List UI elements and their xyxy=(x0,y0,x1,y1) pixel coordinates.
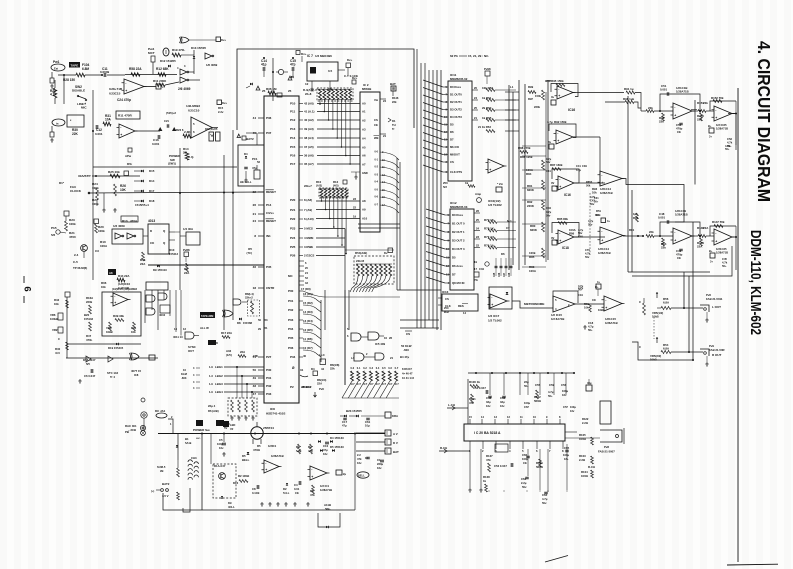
svg-text:Dv+: Dv+ xyxy=(352,76,358,80)
svg-text:1/6 4069: 1/6 4069 xyxy=(206,63,218,67)
svg-text:22A: 22A xyxy=(184,271,190,275)
svg-text:R97: R97 xyxy=(528,97,533,101)
svg-text:40μ: 40μ xyxy=(587,381,592,385)
svg-text:FAB 21-50R: FAB 21-50R xyxy=(709,348,725,352)
svg-text:A3: A3 xyxy=(362,127,366,131)
svg-text:D1*: D1* xyxy=(59,181,65,185)
svg-text:P14: P14 xyxy=(266,203,272,207)
svg-text:4.7μ: 4.7μ xyxy=(588,325,594,329)
svg-text:!: ! xyxy=(258,86,259,90)
svg-text:10: 10 xyxy=(444,115,447,119)
svg-text:U21C10: U21C10 xyxy=(188,109,200,113)
svg-text:IN1: IN1 xyxy=(266,234,271,238)
svg-text:P24: P24 xyxy=(290,236,296,240)
svg-text:Dv+: Dv+ xyxy=(301,52,307,56)
svg-text:4 MWE: 4 MWE xyxy=(304,236,314,240)
svg-text:P03: P03 xyxy=(288,318,294,322)
svg-text:10: 10 xyxy=(183,368,186,372)
svg-text:D12 151955: D12 151955 xyxy=(160,59,176,63)
svg-text:2.2Ω: 2.2Ω xyxy=(582,421,589,425)
svg-text:R146: R146 xyxy=(392,96,399,100)
svg-text:1.9: 1.9 xyxy=(209,390,213,394)
svg-text:0.5: 0.5 xyxy=(328,69,333,73)
svg-text:48: 48 xyxy=(253,384,257,388)
svg-text:D5: D5 xyxy=(452,256,456,260)
svg-text:#B: #B xyxy=(160,469,163,473)
svg-text:A8: A8 xyxy=(109,271,113,275)
svg-text:20: 20 xyxy=(474,86,477,90)
svg-text:0-0: 0-0 xyxy=(351,367,355,370)
svg-text:RESET: RESET xyxy=(266,219,276,223)
svg-text:+: + xyxy=(605,306,607,310)
svg-text:R86 120k: R86 120k xyxy=(520,155,533,159)
svg-text:D5 155133: D5 155133 xyxy=(330,445,344,449)
svg-text:4.7μ: 4.7μ xyxy=(547,120,553,124)
svg-text:50+: 50+ xyxy=(725,147,730,151)
svg-text:TP RLM(6): TP RLM(6) xyxy=(73,266,87,270)
svg-text:10k: 10k xyxy=(584,306,589,310)
svg-text:U28+71B: U28+71B xyxy=(109,87,123,91)
svg-text:P15: P15 xyxy=(290,145,296,149)
svg-text:C41: C41 xyxy=(576,164,581,168)
svg-text:P01: P01 xyxy=(288,299,294,303)
svg-text:LBG4: LBG4 xyxy=(215,390,223,394)
svg-text:C: C xyxy=(639,300,641,304)
svg-text:3+: 3+ xyxy=(710,260,713,264)
svg-text:CS: CS xyxy=(450,160,454,164)
svg-text:100μ: 100μ xyxy=(562,389,568,393)
svg-text:D0 Dvss: D0 Dvss xyxy=(452,213,463,217)
svg-text:10: 10 xyxy=(365,456,368,460)
svg-text:C5: C5 xyxy=(219,438,223,442)
svg-text:10k: 10k xyxy=(596,213,601,217)
svg-text:10μ: 10μ xyxy=(365,424,370,428)
svg-text:IC8: IC8 xyxy=(134,373,139,377)
svg-text:4×7: 4×7 xyxy=(376,383,381,386)
svg-text:C21: C21 xyxy=(164,119,169,123)
svg-text:3V: 3V xyxy=(551,181,554,185)
svg-text:25: 25 xyxy=(476,218,479,222)
svg-text:A5: A5 xyxy=(362,145,366,149)
svg-text:22k: 22k xyxy=(330,367,335,371)
svg-text:100μ: 100μ xyxy=(524,401,530,405)
svg-text:4.7k: 4.7k xyxy=(722,260,728,264)
svg-text:P23: P23 xyxy=(290,227,296,231)
svg-text:22A: 22A xyxy=(140,262,146,266)
svg-text:D2: D2 xyxy=(283,487,287,491)
svg-text:C4: C4 xyxy=(294,483,298,487)
svg-text:R92 150k: R92 150k xyxy=(554,120,567,124)
svg-text:0.001: 0.001 xyxy=(95,132,103,136)
svg-text:0-6: 0-6 xyxy=(388,367,392,370)
svg-text:P20: P20 xyxy=(290,198,296,202)
svg-text:D6: D6 xyxy=(450,130,454,134)
svg-text:P35: P35 xyxy=(266,265,272,269)
svg-text:Pv8: Pv8 xyxy=(319,387,324,391)
svg-text:470Ω: 470Ω xyxy=(253,448,261,452)
svg-text:4010: 4010 xyxy=(159,313,166,317)
svg-text:2.2v: 2.2v xyxy=(218,110,224,114)
svg-text:R25 10k: R25 10k xyxy=(108,170,120,174)
svg-text:+: + xyxy=(601,238,603,242)
svg-text:50: 50 xyxy=(258,318,261,322)
svg-text:10: 10 xyxy=(384,336,388,340)
svg-text:+: + xyxy=(601,181,603,185)
svg-text:P13: P13 xyxy=(290,127,296,131)
svg-text:Ph5: Ph5 xyxy=(51,226,57,230)
svg-text:10k: 10k xyxy=(101,285,106,289)
svg-text:KLM: KLM xyxy=(181,372,188,376)
svg-text:IC5 409: IC5 409 xyxy=(375,342,386,346)
svg-text:P26: P26 xyxy=(290,254,296,258)
svg-text:100μ: 100μ xyxy=(563,453,569,457)
svg-text:47μ: 47μ xyxy=(323,448,328,452)
svg-text:~ 3CB: ~ 3CB xyxy=(128,428,136,432)
svg-text:R10: R10 xyxy=(316,180,322,184)
svg-text:C38: C38 xyxy=(509,272,511,277)
svg-text:R54(A/B): R54(A/B) xyxy=(355,251,367,255)
svg-text:I C 20 BA 5218 A: I C 20 BA 5218 A xyxy=(474,431,501,435)
svg-text:LBG3: LBG3 xyxy=(215,382,223,386)
svg-text:DISABLE: DISABLE xyxy=(72,89,85,93)
svg-text:C36: C36 xyxy=(499,272,501,277)
svg-text:C: C xyxy=(639,345,641,349)
svg-text:R87 160k: R87 160k xyxy=(550,163,563,167)
svg-text:4.7k: 4.7k xyxy=(50,93,56,97)
svg-text:C39: C39 xyxy=(582,164,587,168)
svg-text:+: + xyxy=(674,114,676,118)
svg-text:R88 270k: R88 270k xyxy=(518,146,531,150)
svg-text:10kB: 10kB xyxy=(106,330,113,334)
svg-text:* Vm: * Vm xyxy=(497,182,504,186)
svg-text:4.7μ: 4.7μ xyxy=(578,284,584,288)
svg-text:C18: C18 xyxy=(588,321,594,325)
svg-text:(515)+2: (515)+2 xyxy=(166,111,176,115)
svg-text:HE SALL: HE SALL xyxy=(240,180,252,184)
svg-text:0-3: 0-3 xyxy=(369,367,373,370)
svg-text:4.7μ: 4.7μ xyxy=(576,169,581,172)
svg-text:23: 23 xyxy=(353,197,356,201)
svg-text:1/2 IC17: 1/2 IC17 xyxy=(488,314,500,318)
svg-text:29: 29 xyxy=(258,327,261,331)
svg-text:GND: GND xyxy=(362,171,368,175)
svg-text:Tr: Tr xyxy=(392,127,395,131)
svg-text:12 (D5): 12 (D5) xyxy=(303,328,313,332)
svg-text:CNTR: CNTR xyxy=(266,286,275,290)
svg-text:100kB: 100kB xyxy=(50,317,58,321)
svg-text:P37: P37 xyxy=(266,131,272,135)
svg-text:14 (D3): 14 (D3) xyxy=(303,310,313,314)
svg-text:5/2: 5/2 xyxy=(443,185,447,189)
svg-text:22μ 4: 22μ 4 xyxy=(208,404,216,408)
svg-text:D: D xyxy=(216,341,218,345)
svg-text:+: + xyxy=(715,116,717,120)
svg-text:33μ: 33μ xyxy=(500,400,505,404)
svg-text:P05: P05 xyxy=(288,336,294,340)
svg-text:25: 25 xyxy=(288,89,292,93)
svg-text:C67: C67 xyxy=(524,405,529,409)
svg-text:R122: R122 xyxy=(582,417,589,421)
svg-text:R85 80k: R85 80k xyxy=(557,217,568,221)
svg-text:50v: 50v xyxy=(578,231,583,235)
svg-text:5A1k: 5A1k xyxy=(185,441,192,445)
svg-text:OUT: OUT xyxy=(188,349,194,353)
svg-text:IC18: IC18 xyxy=(562,246,569,250)
svg-text:35 (A7): 35 (A7) xyxy=(304,162,314,166)
svg-text:4.7μ: 4.7μ xyxy=(546,210,552,214)
svg-text:(7C): (7C) xyxy=(247,251,253,255)
svg-text:CS: CS xyxy=(445,297,449,301)
svg-text:4.7μ: 4.7μ xyxy=(588,219,594,223)
svg-text:21: 21 xyxy=(253,212,257,216)
svg-text:B23 151555: B23 151555 xyxy=(346,409,362,413)
svg-text:P10: P10 xyxy=(290,102,296,106)
svg-text:16+: 16+ xyxy=(564,457,569,461)
svg-text:6.8M: 6.8M xyxy=(82,67,89,71)
svg-text:D4 OUT 3: D4 OUT 3 xyxy=(452,247,465,251)
svg-text:ALL W: ALL W xyxy=(200,326,209,330)
svg-text:3v: 3v xyxy=(548,140,551,144)
svg-text:A8: A8 xyxy=(362,199,366,203)
svg-text:100μ: 100μ xyxy=(217,442,223,446)
svg-text:22K: 22K xyxy=(72,132,79,136)
svg-text:P31: P31 xyxy=(266,376,272,380)
svg-text:-603: -603 xyxy=(403,348,409,352)
svg-text:IC16: IC16 xyxy=(564,193,571,197)
svg-text:R39 33k: R39 33k xyxy=(113,314,124,318)
svg-text:C54 0.047: C54 0.047 xyxy=(473,386,486,390)
svg-text:250: 250 xyxy=(444,306,449,310)
svg-text:C7: C7 xyxy=(506,226,510,230)
svg-text:IC8: IC8 xyxy=(270,407,275,411)
svg-text:D1: D1 xyxy=(392,119,396,123)
svg-text:220K: 220K xyxy=(527,204,535,208)
svg-text:Pv88: Pv88 xyxy=(183,248,190,252)
svg-text:APw: APw xyxy=(125,154,132,158)
svg-text:D14: D14 xyxy=(149,179,155,183)
svg-text:RES: RES xyxy=(458,304,464,308)
svg-text:C35: C35 xyxy=(494,272,496,277)
svg-text:C40: C40 xyxy=(578,235,583,239)
svg-text:2 ESCS: 2 ESCS xyxy=(304,254,314,258)
svg-text:22k+2: 22k+2 xyxy=(245,296,253,300)
svg-text:24: 24 xyxy=(474,96,477,100)
svg-text:47p: 47p xyxy=(252,166,257,170)
svg-text:+: + xyxy=(114,301,116,305)
svg-text:5/5: 5/5 xyxy=(86,362,90,366)
svg-text:CLK RTS: CLK RTS xyxy=(450,170,462,174)
svg-text:+: + xyxy=(559,239,561,243)
svg-text:VR2: VR2 xyxy=(52,328,58,332)
svg-text:16v: 16v xyxy=(486,404,491,408)
svg-text:FAB 21-5011: FAB 21-5011 xyxy=(706,297,723,301)
svg-text:2.2μ: 2.2μ xyxy=(521,481,527,485)
svg-text:50v: 50v xyxy=(590,202,595,206)
svg-text:CE: CE xyxy=(374,123,378,127)
svg-text:100k: 100k xyxy=(92,186,99,190)
svg-text:R-CH: R-CH xyxy=(588,465,595,469)
svg-text:10 41 1×2: 10 41 1×2 xyxy=(402,376,415,380)
svg-text:TAPE: TAPE xyxy=(71,63,79,67)
svg-text:LBG1: LBG1 xyxy=(215,365,223,369)
svg-text:1/28A71B: 1/28A71B xyxy=(716,127,728,131)
svg-text:4.7k: 4.7k xyxy=(727,140,733,144)
svg-text:SUM-5: SUM-5 xyxy=(157,465,166,469)
svg-text:10k: 10k xyxy=(592,191,597,195)
svg-text:R58 22A: R58 22A xyxy=(129,67,142,71)
svg-text:26: 26 xyxy=(253,203,257,207)
svg-text:4×7: 4×7 xyxy=(382,383,387,386)
svg-text:C: C xyxy=(58,337,60,341)
svg-text:4.7k: 4.7k xyxy=(585,251,591,255)
svg-text:CE: CE xyxy=(677,130,681,134)
svg-text:BAT: BAT xyxy=(393,450,399,454)
svg-text:TH: TH xyxy=(392,123,396,127)
svg-text:TAPE-DIM: TAPE-DIM xyxy=(201,314,213,318)
svg-text:4013: 4013 xyxy=(148,219,155,223)
svg-text:0.01: 0.01 xyxy=(294,487,300,491)
svg-text:CS: CS xyxy=(374,118,378,122)
svg-text:MIC: MIC xyxy=(81,106,87,110)
svg-text:P25: P25 xyxy=(290,245,296,249)
svg-text:P00: P00 xyxy=(288,289,294,293)
svg-text:0-5: 0-5 xyxy=(382,367,386,370)
svg-text:P16: P16 xyxy=(290,154,296,158)
svg-text:B20: B20 xyxy=(84,313,90,317)
svg-text:10k R52: 10k R52 xyxy=(482,86,493,90)
svg-text:R100 1k: R100 1k xyxy=(469,380,480,384)
svg-text:3 RWE: 3 RWE xyxy=(304,245,313,249)
svg-text:33μ: 33μ xyxy=(486,400,491,404)
svg-text:8 D6 D7: 8 D6 D7 xyxy=(402,367,412,371)
svg-text:12: 12 xyxy=(305,82,309,86)
svg-text:19: 19 xyxy=(474,260,477,264)
svg-text:P27: P27 xyxy=(266,355,272,359)
svg-text:DC JA1: DC JA1 xyxy=(155,409,166,413)
svg-text:0.0039: 0.0039 xyxy=(100,70,110,74)
svg-text:12: 12 xyxy=(446,264,449,268)
svg-text:26: 26 xyxy=(389,336,393,340)
svg-text:R84: R84 xyxy=(526,172,532,176)
svg-text:1/28A71B: 1/28A71B xyxy=(675,213,688,217)
svg-text:D10: D10 xyxy=(169,248,175,252)
svg-text:5 MCS: 5 MCS xyxy=(304,227,313,231)
svg-text:100Ω: 100Ω xyxy=(581,474,589,478)
svg-text:P06: P06 xyxy=(288,346,294,350)
svg-text:100k: 100k xyxy=(98,229,105,233)
svg-text:42 (A0): 42 (A0) xyxy=(304,102,314,106)
svg-text:470A: 470A xyxy=(130,219,138,223)
svg-text:40 (A2): 40 (A2) xyxy=(304,118,314,122)
svg-text:D3 OUT 2: D3 OUT 2 xyxy=(452,239,465,243)
svg-text:13: 13 xyxy=(444,138,447,142)
svg-text:P12: P12 xyxy=(290,118,296,122)
svg-text:D15,41/25: D15,41/25 xyxy=(205,127,218,131)
svg-text:IC13: IC13 xyxy=(442,290,449,294)
svg-text:100Ω: 100Ω xyxy=(579,437,587,441)
svg-text:21 1k R53: 21 1k R53 xyxy=(478,125,491,129)
svg-text:49: 49 xyxy=(253,376,257,380)
svg-text:1/2LM393: 1/2LM393 xyxy=(186,104,200,108)
svg-text:50v: 50v xyxy=(546,214,551,218)
svg-text:1/28A71B: 1/28A71B xyxy=(271,454,284,458)
svg-text:A V: A V xyxy=(393,432,398,436)
svg-text:+: + xyxy=(120,133,122,137)
svg-text:23: 23 xyxy=(476,235,479,239)
svg-text:4. CIRCUIT DIAGRAM: 4. CIRCUIT DIAGRAM xyxy=(754,41,774,202)
svg-text:Pv8: Pv8 xyxy=(604,445,609,449)
svg-text:C61: C61 xyxy=(365,420,371,424)
svg-text:16v: 16v xyxy=(219,446,224,450)
svg-text:P36: P36 xyxy=(266,116,272,120)
svg-text:3v: 3v xyxy=(551,95,554,99)
svg-text:C41: C41 xyxy=(546,169,551,173)
svg-text:39 (A3): 39 (A3) xyxy=(304,127,314,131)
svg-text:10K: 10K xyxy=(120,188,127,192)
svg-text:R99: R99 xyxy=(528,85,534,89)
svg-text:D12: D12 xyxy=(233,481,239,485)
svg-text:16v: 16v xyxy=(500,404,505,408)
svg-text:R22 6: R22 6 xyxy=(176,128,184,132)
svg-text:1/28A71B: 1/28A71B xyxy=(598,251,611,255)
svg-text:u.c.: u.c. xyxy=(196,437,201,440)
svg-text:+: + xyxy=(489,168,491,172)
svg-text:CS: CS xyxy=(406,332,410,336)
svg-text:24: 24 xyxy=(383,99,387,103)
svg-text:KRA: KRA xyxy=(392,414,398,418)
svg-text:50v: 50v xyxy=(542,501,547,505)
svg-text:D18: D18 xyxy=(149,199,155,203)
svg-text:CH3: CH3 xyxy=(191,456,197,460)
svg-text:11 (D6): 11 (D6) xyxy=(303,337,313,341)
svg-text:+: + xyxy=(125,89,127,93)
svg-text:(SW1): (SW1) xyxy=(168,161,176,165)
svg-text:16v: 16v xyxy=(570,409,575,413)
svg-text:HSD741-410S: HSD741-410S xyxy=(266,412,285,416)
svg-text:C-5: C-5 xyxy=(73,260,78,264)
svg-text:D7: D7 xyxy=(450,138,454,142)
svg-text:52: 52 xyxy=(257,160,260,164)
svg-text:PG: PG xyxy=(474,278,478,282)
svg-text:4011 13: 4011 13 xyxy=(173,335,183,339)
svg-text:4× 46 47: 4× 46 47 xyxy=(402,372,413,376)
svg-text:1/2 4069: 1/2 4069 xyxy=(113,224,125,228)
svg-text:47k: 47k xyxy=(486,458,491,462)
svg-text:C57: C57 xyxy=(563,405,568,409)
svg-text:1/4 40A: 1/4 40A xyxy=(183,227,194,231)
svg-text:C34: C34 xyxy=(479,267,484,271)
svg-text:3+: 3+ xyxy=(709,135,712,139)
svg-text:41p: 41p xyxy=(261,63,267,67)
svg-text:5×LL: 5×LL xyxy=(283,491,290,495)
svg-text:Vm: Vm xyxy=(374,98,379,102)
svg-text:B+: B+ xyxy=(709,249,713,253)
svg-text:47p: 47p xyxy=(290,63,296,67)
svg-text:A0: A0 xyxy=(362,101,366,105)
svg-text:40: 40 xyxy=(303,354,307,358)
svg-text:C10: C10 xyxy=(323,444,329,448)
svg-text:1/2 IC1: 1/2 IC1 xyxy=(320,484,329,488)
svg-text:1/21C25: 1/21C25 xyxy=(716,247,727,251)
svg-text:14: 14 xyxy=(463,311,466,315)
svg-text:22: 22 xyxy=(476,244,479,248)
svg-text:R OUT: R OUT xyxy=(712,353,722,357)
svg-text:L1: L1 xyxy=(510,85,514,89)
svg-text:47μ: 47μ xyxy=(342,424,347,428)
svg-text:P30: P30 xyxy=(266,368,272,372)
svg-text:+: + xyxy=(559,185,561,189)
svg-text:METRONOME: METRONOME xyxy=(524,302,544,306)
